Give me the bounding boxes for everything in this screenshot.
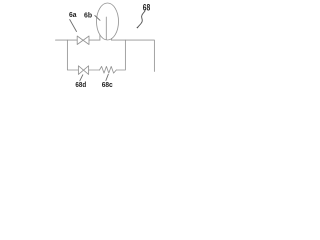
svg-text:6a: 6a <box>69 11 77 19</box>
svg-text:6b: 6b <box>84 10 93 19</box>
svg-text:68: 68 <box>143 2 151 12</box>
svg-text:68d: 68d <box>75 82 86 89</box>
svg-text:68c: 68c <box>102 82 113 89</box>
